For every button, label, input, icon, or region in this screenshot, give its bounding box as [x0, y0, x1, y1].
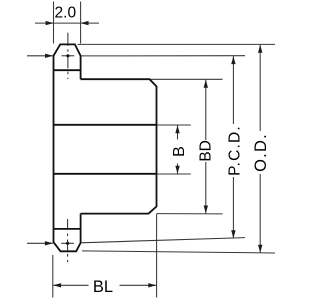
svg-text:B: B — [171, 146, 188, 157]
svg-text:P.C.D.: P.C.D. — [227, 125, 244, 176]
svg-text:2.0: 2.0 — [55, 4, 77, 21]
svg-text:BL: BL — [93, 278, 113, 296]
svg-text:O.D.: O.D. — [252, 133, 270, 172]
svg-text:BD: BD — [197, 140, 214, 162]
